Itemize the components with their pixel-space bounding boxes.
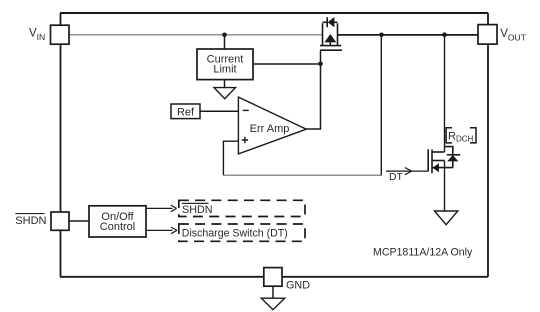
node junction feedback tap on VOUT rail <box>379 33 384 38</box>
svg-text:Discharge Switch (DT): Discharge Switch (DT) <box>182 228 288 240</box>
op-amp U1 Err Amp <box>238 97 306 154</box>
pin pad VOUT <box>478 25 497 44</box>
block On/Off Control <box>89 206 146 237</box>
wire error amp non-inverting input feedback <box>223 141 238 175</box>
pin pad GND <box>264 268 282 287</box>
wire VIN rail to pass transistor source <box>69 34 323 36</box>
wire top border of device outline <box>60 12 488 14</box>
wire discharge transistor drain to VOUT rail <box>444 35 446 152</box>
wire DT gate drive with direction arrow <box>386 170 428 172</box>
wire GND pad to ground symbol <box>272 286 274 298</box>
ground below GND pad <box>261 298 284 310</box>
wire bottom border of device outline <box>60 276 488 278</box>
svg-text:Limit: Limit <box>213 64 236 76</box>
svg-text:GND: GND <box>286 280 310 292</box>
transistor Q1 PMOS pass element with body diode <box>320 17 342 50</box>
wire gate lead (gate bar down to error amp output) <box>320 51 322 129</box>
wire discharge transistor source to ground <box>444 161 446 212</box>
wire arrow On/Off Control to SHDN function box <box>146 207 173 209</box>
ground below discharge transistor <box>435 211 458 225</box>
node gate drive junction <box>318 62 323 67</box>
wire rail tap down to Current Limit input <box>224 35 226 49</box>
svg-text:SHDN: SHDN <box>182 204 213 216</box>
wire pass transistor drain to VOUT pad <box>338 34 479 36</box>
svg-text:DT: DT <box>389 172 404 183</box>
wire Ref to error amp inverting input <box>200 110 238 112</box>
pin pad SHDN <box>51 212 69 230</box>
node junction discharge drain tap on VOUT rail <box>442 32 447 37</box>
wire arrow On/Off Control to Discharge Switch box <box>146 229 173 231</box>
block Ref <box>171 104 200 119</box>
wire Current Limit output to pass gate node <box>253 63 321 65</box>
wire Current Limit to ground symbol <box>224 80 226 88</box>
block Current Limit <box>197 49 253 80</box>
transistor Q2 NMOS discharge switch with body diode <box>428 147 460 174</box>
wire error amp output <box>306 128 321 130</box>
pin pad VIN <box>51 25 70 44</box>
node junction on rail above Current Limit <box>222 33 227 38</box>
svg-text:MCP1811A/12A Only: MCP1811A/12A Only <box>373 247 473 259</box>
block dashed SHDN function <box>179 200 305 216</box>
ground below Current Limit <box>214 88 236 99</box>
resistor RDCH label with brackets <box>446 128 476 143</box>
wire SHDN pad to On/Off Control <box>69 220 89 222</box>
svg-text:Err Amp: Err Amp <box>250 123 290 135</box>
wire left border of device outline <box>60 13 62 277</box>
wire right border of device outline <box>487 13 489 277</box>
block dashed Discharge Switch (DT) <box>179 224 305 241</box>
svg-text:SHDN: SHDN <box>15 215 46 227</box>
svg-text:Ref: Ref <box>177 106 195 118</box>
svg-text:Control: Control <box>100 221 135 233</box>
